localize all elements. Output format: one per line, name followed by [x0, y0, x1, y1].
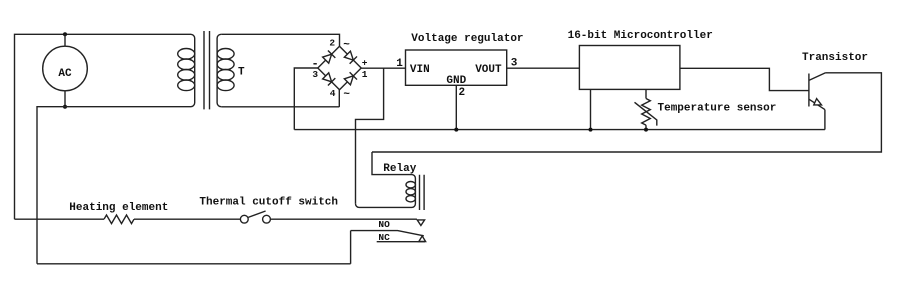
svg-text:GND: GND — [446, 75, 466, 87]
wire secondary bottom to bridge node 4 stub — [221, 106, 339, 108]
wire AC bottom to left drop — [37, 107, 65, 264]
node junction dot thermistor ground — [644, 128, 648, 132]
diode D2 (node2 to node1) — [344, 51, 357, 64]
svg-text:NC: NC — [378, 232, 390, 243]
relay armature pole — [351, 231, 424, 236]
16-bit microcontroller U2 — [579, 46, 680, 90]
wire switch to relay NO contact — [270, 218, 417, 220]
svg-text:2: 2 — [459, 87, 466, 99]
thermistor RT1 temperature sensor — [635, 99, 657, 130]
wire regulator VOUT to microcontroller — [507, 67, 580, 69]
svg-text:16-bit Microcontroller: 16-bit Microcontroller — [568, 30, 713, 42]
wire microcontroller to transistor base — [680, 68, 809, 90]
wire regulator GND pin 2 — [455, 85, 457, 129]
node junction dot mcu ground — [589, 128, 593, 132]
diode D3 (node3 to node4) — [323, 73, 336, 86]
svg-text:VIN: VIN — [410, 64, 430, 76]
transformer T secondary winding — [217, 34, 234, 106]
ac source V1 — [43, 34, 88, 106]
node A junction dot top of AC — [63, 32, 67, 36]
wire armature to bottom return — [350, 231, 352, 264]
wire resistor to switch — [134, 218, 240, 220]
relay NO contact terminal — [417, 220, 424, 226]
wire left outer vertical and top from AC line — [15, 34, 191, 219]
resistor R1 heating element — [104, 215, 134, 224]
svg-text:AC: AC — [58, 68, 72, 80]
wire bridge node3 to ground rail — [294, 68, 318, 130]
node GND junction dot regulator — [454, 128, 458, 132]
wire heating element branch — [15, 218, 105, 220]
diode D4 (node4 to node1) — [344, 72, 357, 85]
thermal cutoff switch S1 — [240, 211, 270, 223]
wire bridge node1 to regulator VIN — [361, 67, 405, 69]
wire transistor collector loop to relay — [372, 73, 881, 152]
svg-text:Voltage regulator: Voltage regulator — [411, 33, 523, 45]
relay K1 coil — [356, 152, 416, 207]
svg-text:Temperature sensor: Temperature sensor — [658, 102, 777, 114]
wire +V branch to relay coil — [356, 68, 384, 204]
wire AC bottom to transformer primary — [65, 106, 191, 108]
bridge rectifier diamond — [318, 46, 361, 89]
relay NC contact terminal — [419, 236, 426, 242]
svg-text:2: 2 — [329, 37, 335, 48]
svg-text:1: 1 — [396, 58, 403, 70]
svg-text:+: + — [362, 57, 368, 68]
wire secondary top to bridge node 2 — [221, 34, 339, 46]
wire microcontroller ground pin — [590, 89, 592, 129]
svg-text:Relay: Relay — [383, 163, 416, 175]
svg-text:Heating element: Heating element — [69, 202, 168, 214]
wire bridge node4 stub — [338, 90, 340, 107]
svg-text:Transistor: Transistor — [802, 52, 868, 64]
wire microcontroller to thermistor — [645, 89, 647, 98]
svg-text:~: ~ — [343, 89, 350, 101]
svg-text:NO: NO — [378, 219, 390, 230]
diode D1 (node3 to node2) — [323, 51, 336, 64]
transistor Q1 — [809, 73, 826, 110]
relay core — [420, 175, 425, 210]
svg-text:VOUT: VOUT — [475, 64, 502, 76]
svg-text:4: 4 — [330, 88, 336, 99]
svg-text:Thermal cutoff switch: Thermal cutoff switch — [199, 197, 338, 209]
svg-text:T: T — [238, 66, 245, 78]
svg-text:~: ~ — [343, 39, 350, 51]
wire transistor emitter to ground rail — [824, 110, 826, 130]
voltage regulator U1 — [406, 50, 507, 87]
svg-text:3: 3 — [312, 69, 318, 80]
transformer T primary winding — [178, 34, 195, 106]
wire bottom return — [37, 263, 351, 265]
node B junction dot bottom of AC — [63, 105, 67, 109]
transformer core — [204, 31, 210, 109]
relay NC contact line — [377, 241, 425, 243]
svg-text:1: 1 — [362, 69, 368, 80]
wire ground rail — [294, 129, 825, 131]
